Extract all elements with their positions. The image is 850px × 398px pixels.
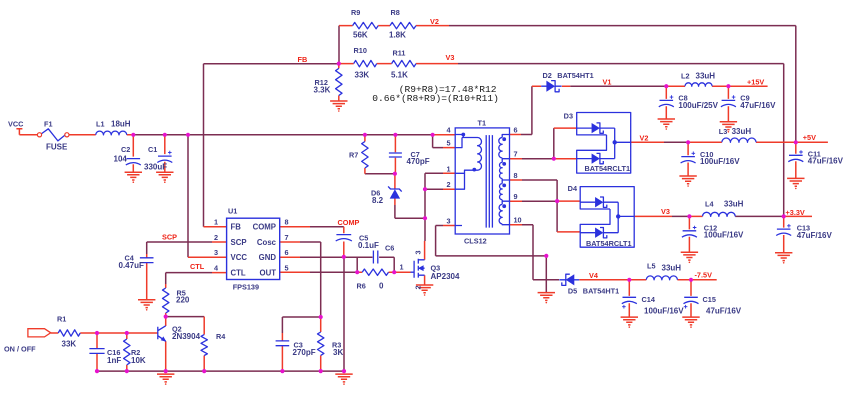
svg-text:0.47uF: 0.47uF (119, 261, 144, 270)
svg-text:33K: 33K (62, 340, 77, 349)
svg-text:+3.3V: +3.3V (786, 208, 805, 217)
svg-text:1: 1 (214, 218, 218, 227)
svg-text:V3: V3 (446, 53, 455, 62)
svg-text:33K: 33K (355, 71, 370, 80)
svg-text:V2: V2 (640, 134, 649, 143)
svg-text:100uF/16V: 100uF/16V (700, 157, 740, 166)
svg-text:33uH: 33uH (696, 72, 716, 81)
svg-text:GND: GND (259, 253, 277, 262)
svg-text:CTL: CTL (190, 262, 205, 271)
svg-text:COMP: COMP (338, 218, 360, 227)
svg-text:2: 2 (214, 233, 218, 242)
svg-text:1nF: 1nF (107, 356, 121, 365)
svg-text:7: 7 (514, 150, 518, 159)
svg-text:2: 2 (414, 285, 423, 289)
svg-text:220: 220 (176, 296, 190, 305)
svg-text:+15V: +15V (747, 78, 764, 87)
svg-text:ON / OFF: ON / OFF (4, 345, 36, 354)
svg-text:T1: T1 (478, 119, 487, 128)
svg-text:5.1K: 5.1K (391, 71, 408, 80)
svg-text:VCC: VCC (231, 253, 248, 262)
svg-text:3.3K: 3.3K (314, 86, 331, 95)
svg-text:FB: FB (298, 55, 308, 64)
svg-text:+5V: +5V (803, 133, 816, 142)
svg-text:L4: L4 (705, 200, 714, 209)
svg-text:47uF/16V: 47uF/16V (740, 101, 776, 110)
svg-text:47uF/16V: 47uF/16V (808, 157, 844, 166)
svg-text:BAT54HT1: BAT54HT1 (583, 287, 619, 296)
svg-text:V3: V3 (661, 207, 670, 216)
svg-text:270pF: 270pF (293, 348, 316, 357)
svg-text:33uH: 33uH (662, 264, 682, 273)
svg-text:3: 3 (414, 250, 423, 254)
svg-text:8.2: 8.2 (372, 196, 384, 205)
svg-text:COMP: COMP (253, 223, 276, 232)
svg-text:D5: D5 (568, 287, 577, 296)
svg-text:R11: R11 (393, 49, 406, 58)
svg-text:33uH: 33uH (724, 200, 744, 209)
svg-text:CLS12: CLS12 (464, 237, 487, 246)
svg-text:2N3904: 2N3904 (172, 332, 201, 341)
svg-text:10K: 10K (131, 356, 146, 365)
svg-text:R7: R7 (349, 151, 358, 160)
svg-text:L3: L3 (719, 127, 728, 136)
svg-text:7: 7 (285, 233, 289, 242)
svg-text:FUSE: FUSE (46, 143, 68, 152)
svg-text:V4: V4 (589, 271, 599, 280)
svg-text:R6: R6 (357, 282, 366, 291)
svg-text:FPS139: FPS139 (233, 283, 259, 292)
svg-text:1: 1 (400, 263, 404, 272)
svg-text:D3: D3 (564, 112, 573, 121)
svg-text:R10: R10 (354, 46, 367, 55)
svg-text:C1: C1 (148, 145, 157, 154)
svg-text:100uF/25V: 100uF/25V (678, 101, 718, 110)
svg-text:R4: R4 (216, 332, 226, 341)
svg-text:0: 0 (379, 282, 384, 291)
svg-text:AP2304: AP2304 (431, 272, 460, 281)
svg-text:5: 5 (285, 263, 289, 272)
svg-text:8: 8 (514, 171, 518, 180)
svg-text:R1: R1 (57, 315, 66, 324)
svg-text:3: 3 (214, 248, 218, 257)
svg-text:3K: 3K (333, 348, 343, 357)
svg-text:SCP: SCP (162, 233, 177, 242)
svg-text:V2: V2 (430, 17, 439, 26)
svg-text:6: 6 (285, 248, 289, 257)
svg-text:L1: L1 (96, 120, 105, 129)
svg-text:56K: 56K (353, 31, 368, 40)
svg-text:D2: D2 (543, 71, 552, 80)
svg-text:47uF/16V: 47uF/16V (706, 307, 742, 316)
svg-text:6: 6 (514, 126, 518, 135)
svg-text:5: 5 (446, 139, 450, 148)
svg-text:470pF: 470pF (407, 157, 430, 166)
svg-text:BAT54RCLT1: BAT54RCLT1 (586, 239, 632, 248)
svg-text:330uF: 330uF (144, 163, 167, 172)
svg-text:18uH: 18uH (111, 120, 131, 129)
svg-text:0.66*(R8+R9)=(R10+R11): 0.66*(R8+R9)=(R10+R11) (372, 93, 499, 104)
svg-text:R8: R8 (391, 8, 400, 17)
svg-text:C6: C6 (385, 244, 394, 253)
svg-text:104: 104 (114, 155, 128, 164)
svg-text:3: 3 (446, 216, 450, 225)
svg-text:2: 2 (446, 180, 450, 189)
svg-text:FB: FB (231, 223, 242, 232)
svg-text:BAT54HT1: BAT54HT1 (557, 71, 593, 80)
svg-text:1.8K: 1.8K (389, 31, 406, 40)
svg-text:SCP: SCP (231, 238, 247, 247)
svg-text:VCC: VCC (8, 120, 24, 129)
svg-text:V1: V1 (603, 78, 612, 87)
svg-text:100uF/16V: 100uF/16V (644, 307, 684, 316)
svg-text:R9: R9 (351, 8, 360, 17)
svg-text:D4: D4 (568, 184, 578, 193)
svg-text:F1: F1 (44, 120, 53, 129)
svg-text:C2: C2 (121, 145, 130, 154)
svg-text:100uF/16V: 100uF/16V (704, 231, 744, 240)
svg-text:CTL: CTL (231, 268, 246, 277)
svg-text:9: 9 (514, 192, 518, 201)
svg-text:1: 1 (446, 164, 450, 173)
svg-text:0.1uF: 0.1uF (358, 241, 379, 250)
svg-text:8: 8 (285, 218, 289, 227)
svg-text:47uF/16V: 47uF/16V (797, 231, 833, 240)
svg-text:OUT: OUT (260, 268, 277, 277)
svg-text:C15: C15 (703, 295, 716, 304)
svg-text:U1: U1 (228, 207, 237, 216)
svg-text:BAT54RCLT1: BAT54RCLT1 (585, 164, 631, 173)
svg-text:Cosc: Cosc (257, 238, 277, 247)
svg-text:-7.5V: -7.5V (695, 271, 713, 280)
svg-text:L5: L5 (647, 262, 656, 271)
svg-text:L2: L2 (681, 72, 690, 81)
svg-text:33uH: 33uH (732, 127, 752, 136)
svg-text:10: 10 (514, 216, 522, 225)
svg-text:C14: C14 (642, 295, 656, 304)
